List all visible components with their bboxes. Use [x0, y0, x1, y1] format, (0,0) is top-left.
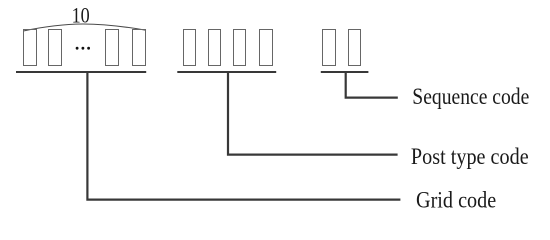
ellipsis dots [76, 47, 90, 50]
grid code digit box 2 [49, 30, 62, 66]
wire grid code leader [87, 71, 400, 200]
svg-text:10: 10 [72, 3, 90, 28]
post type code digit box 3 [234, 30, 246, 66]
wire post type code leader [228, 71, 398, 155]
post type code digit box 2 [209, 30, 221, 66]
svg-text:Sequence code: Sequence code [412, 84, 529, 109]
svg-text:Post type code: Post type code [411, 144, 529, 169]
brace over 10-digit group [23, 24, 146, 31]
sequence code digit box 2 [349, 30, 361, 66]
sequence code group underline [321, 71, 369, 73]
grid code digit box 4 [133, 30, 146, 66]
post type code digit box 4 [260, 30, 273, 66]
grid code digit box 3 [106, 30, 119, 66]
sequence code digit box 1 [323, 30, 336, 66]
grid code digit box 1 [24, 30, 37, 66]
grid code group underline [16, 71, 146, 73]
post type code digit box 1 [184, 30, 196, 66]
wire sequence code leader [346, 71, 398, 98]
post type code group underline [177, 71, 276, 73]
svg-text:Grid code: Grid code [416, 187, 496, 212]
